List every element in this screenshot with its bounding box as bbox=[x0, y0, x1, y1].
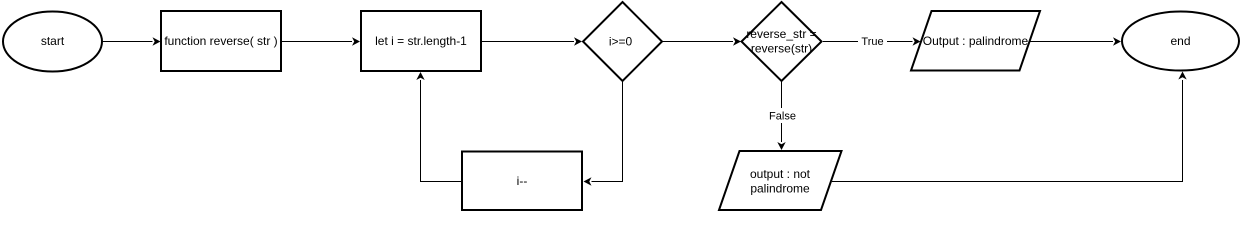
svg-text:i>=0: i>=0 bbox=[609, 35, 633, 49]
wire False to output not palindrome bbox=[767, 82, 798, 150]
wire output palindrome to end bbox=[1030, 37, 1121, 45]
svg-text:i--: i-- bbox=[517, 174, 528, 188]
svg-text:Output : palindrome: Output : palindrome bbox=[923, 34, 1029, 48]
wire i-- back to let i bbox=[416, 72, 461, 182]
decision reverse_str = reverse(str) bbox=[742, 2, 822, 81]
svg-text:output : not: output : not bbox=[750, 167, 811, 181]
svg-text:function reverse( str ): function reverse( str ) bbox=[164, 34, 277, 48]
svg-text:start: start bbox=[41, 34, 65, 48]
wire start to function bbox=[103, 37, 161, 45]
process function reverse( str ) bbox=[161, 11, 281, 71]
svg-text:end: end bbox=[1170, 34, 1190, 48]
process let i = str.length-1 bbox=[361, 11, 481, 71]
decision i>=0 bbox=[583, 2, 662, 81]
process i-- bbox=[462, 152, 582, 211]
wire decision loop to i-- bbox=[584, 82, 623, 186]
svg-text:reverse(str): reverse(str) bbox=[751, 42, 812, 56]
wire decision to decision2 bbox=[663, 37, 741, 45]
svg-text:palindrome: palindrome bbox=[750, 182, 810, 196]
io Output : palindrome bbox=[911, 11, 1040, 71]
io output : not palindrome bbox=[719, 151, 842, 210]
svg-text:reverse_str =: reverse_str = bbox=[746, 27, 816, 41]
svg-text:True: True bbox=[861, 36, 883, 48]
terminator start bbox=[3, 12, 102, 72]
svg-text:let i = str.length-1: let i = str.length-1 bbox=[375, 34, 467, 48]
terminator end bbox=[1122, 12, 1239, 71]
wire True to output palindrome bbox=[823, 34, 921, 49]
wire output not palindrome to end bbox=[832, 72, 1187, 182]
wire let i to decision bbox=[482, 37, 582, 45]
svg-text:False: False bbox=[769, 111, 796, 123]
wire function to let i bbox=[282, 37, 360, 45]
